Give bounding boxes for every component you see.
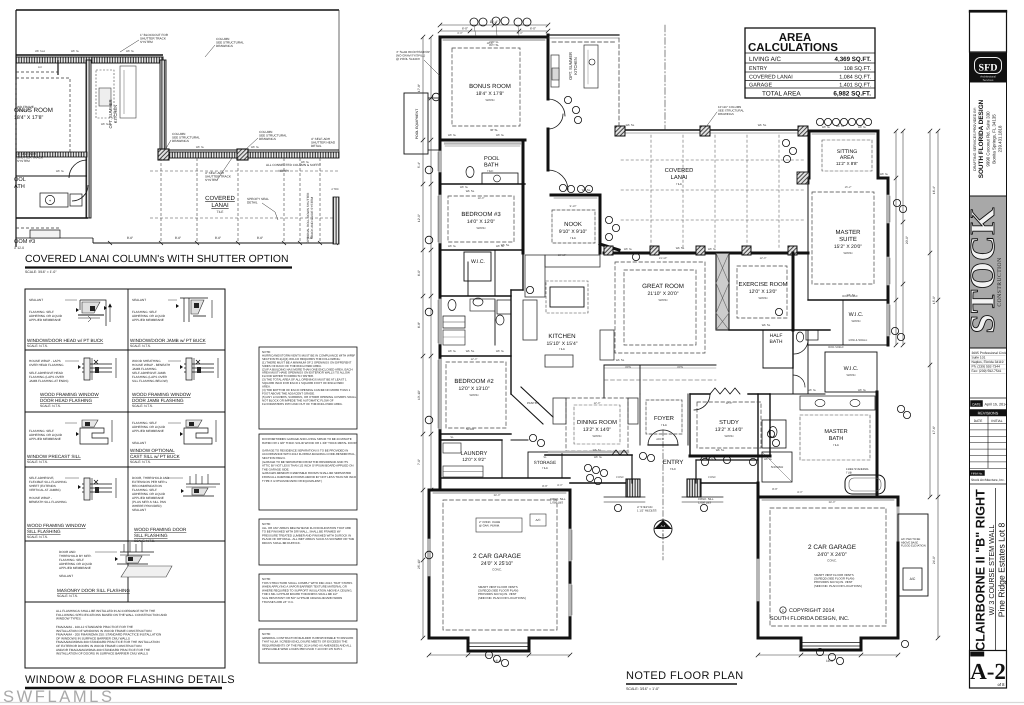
- svg-text:STUDY: STUDY: [719, 419, 739, 426]
- svg-text:APPLIED MEMBRANE: APPLIED MEMBRANE: [29, 318, 61, 322]
- plan: lanai bottom columns: [604, 246, 613, 255]
- plan: master bath counters: [800, 396, 875, 410]
- plan: lanai top beam: [619, 129, 808, 131]
- plan: dining buffet rects: [553, 398, 566, 424]
- svg-text:WOOD FRAMING WINDOW: WOOD FRAMING WINDOW: [40, 392, 99, 397]
- svg-text:15'-0": 15'-0": [932, 296, 936, 304]
- svg-text:KITCHEN: KITCHEN: [573, 57, 578, 75]
- svg-text:SILL FLASHING: SILL FLASHING: [134, 533, 168, 538]
- svg-text:APPLIED MEMBRANE: APPLIED MEMBRANE: [59, 566, 91, 570]
- svg-text:DATE: DATE: [974, 419, 983, 423]
- svg-text:WF SL: WF SL: [593, 448, 602, 452]
- plan: top exterior wall (bonus room): [440, 36, 548, 39]
- svg-text:ROD-SHELF: ROD-SHELF: [828, 346, 844, 349]
- svg-text:18'-4": 18'-4": [490, 20, 499, 24]
- svg-text:A/C: A/C: [910, 577, 916, 581]
- flashing grid row lines: [25, 349, 225, 351]
- svg-text:MASTER: MASTER: [824, 429, 847, 435]
- svg-text:SEALANT: SEALANT: [29, 298, 43, 302]
- plan: bed2 block right wall: [510, 290, 512, 394]
- svg-text:WOOD: WOOD: [485, 98, 494, 102]
- svg-text:BENEATH SILL FLASHING: BENEATH SILL FLASHING: [29, 500, 67, 504]
- svg-text:21'10" X 20'0": 21'10" X 20'0": [647, 291, 678, 297]
- svg-text:WINDOW/DOOR HEAD w/ PT BUCK: WINDOW/DOOR HEAD w/ PT BUCK: [27, 338, 104, 343]
- svg-text:CALCULATIONS: CALCULATIONS: [748, 42, 838, 54]
- plan: sitting corner step: [878, 177, 888, 180]
- svg-text:WF SL: WF SL: [858, 126, 867, 129]
- flashing grid divider vertical: [127, 289, 129, 602]
- svg-text:SCALE: 3/16" = 1'-0": SCALE: 3/16" = 1'-0": [626, 687, 660, 691]
- svg-text:NOTED FLOOR PLAN: NOTED FLOOR PLAN: [626, 670, 744, 682]
- plan: bonus right wall lower: [547, 129, 550, 152]
- svg-text:8'-0": 8'-0": [215, 236, 221, 240]
- svg-text:239.431.1818: 239.431.1818: [998, 125, 1003, 152]
- svg-text:WINDOW & DOOR FLASHING DETAILS: WINDOW & DOOR FLASHING DETAILS: [25, 674, 235, 686]
- plan: lanai centerline dashdot: [664, 25, 666, 130]
- plan: wing right wall (x523): [522, 140, 525, 253]
- plan: entry side walls: [631, 455, 633, 483]
- svg-text:17'-6": 17'-6": [932, 426, 936, 434]
- svg-text:W.I.C.: W.I.C.: [844, 366, 859, 372]
- titleblock: revisions bar: [970, 410, 1007, 417]
- svg-text:ENTRY: ENTRY: [663, 459, 684, 466]
- svg-text:8'-0": 8'-0": [257, 236, 263, 240]
- svg-text:18'4" X 17'8": 18'4" X 17'8": [14, 115, 43, 121]
- svg-text:JAMB FLASHING AT ENDS): JAMB FLASHING AT ENDS): [29, 379, 68, 383]
- note box 2: garage door note: [259, 434, 357, 510]
- svg-text:14'-0": 14'-0": [478, 197, 485, 200]
- svg-text:6,982 SQ.FT.: 6,982 SQ.FT.: [833, 91, 871, 98]
- svg-text:12'0" X 9'2": 12'0" X 9'2": [462, 457, 486, 462]
- area calc row lines: [745, 52, 875, 54]
- svg-text:Pine Ridge Estates Lot 8: Pine Ridge Estates Lot 8: [997, 522, 1007, 617]
- detail: bonus room dashed ceiling: [16, 78, 70, 154]
- plan: hall to master: [792, 368, 794, 394]
- svg-text:GREAT ROOM: GREAT ROOM: [642, 283, 684, 290]
- svg-text:MASONRY DOOR SILL FLASHING: MASONRY DOOR SILL FLASHING: [57, 588, 130, 593]
- svg-text:3695 Professional Circle: 3695 Professional Circle: [972, 351, 1008, 355]
- detail: lanai column mid: [237, 149, 248, 160]
- svg-text:SCALE: 3/16" = 1'-0": SCALE: 3/16" = 1'-0": [25, 270, 57, 274]
- plan: dining dashed rects: [566, 398, 628, 451]
- svg-text:TILE: TILE: [217, 210, 224, 214]
- plan: bonus right wall upper: [547, 35, 550, 99]
- svg-text:8'-0": 8'-0": [175, 236, 181, 240]
- svg-text:OPN: OPN: [677, 366, 683, 369]
- svg-text:6'-8": 6'-8": [417, 322, 421, 328]
- plan: entry steps: [604, 496, 645, 498]
- plan: zigzag front windows: [612, 450, 628, 455]
- svg-text:WD GYP: WD GYP: [17, 109, 30, 113]
- svg-text:WF SL: WF SL: [706, 458, 715, 461]
- svg-text:BATH: BATH: [770, 339, 783, 345]
- svg-text:CAST SILL w/ PT BUCK: CAST SILL w/ PT BUCK: [130, 454, 181, 459]
- svg-text:8'-0": 8'-0": [127, 236, 133, 240]
- svg-text:4,369 SQ.FT.: 4,369 SQ.FT.: [835, 56, 872, 63]
- svg-text:WF SL: WF SL: [624, 248, 633, 251]
- plan: study door arc: [694, 394, 710, 410]
- svg-text:9'10" X 9'10": 9'10" X 9'10": [559, 229, 587, 235]
- svg-text:SCALE: N.T.S.: SCALE: N.T.S.: [40, 404, 61, 408]
- svg-text:Fax: (239) 592-7541: Fax: (239) 592-7541: [972, 369, 1002, 373]
- svg-text:WF SL: WF SL: [496, 134, 505, 137]
- detail: second top wall segment: [92, 57, 163, 63]
- svg-text:1: 1: [662, 533, 664, 537]
- svg-text:WF SL: WF SL: [448, 245, 457, 248]
- flashing details outer box: [25, 289, 225, 668]
- svg-text:24'0" X 24'0": 24'0" X 24'0": [817, 552, 846, 558]
- plan: master left boundary: [807, 178, 809, 300]
- svg-text:SOUTH FLORIDA DESIGN: SOUTH FLORIDA DESIGN: [978, 99, 985, 178]
- svg-text:COPYRIGHT 2014: COPYRIGHT 2014: [789, 608, 834, 614]
- svg-text:April 15, 2014: April 15, 2014: [985, 403, 1008, 407]
- plan: tub: [845, 475, 885, 494]
- svg-text:DRAWINGS: DRAWINGS: [259, 137, 276, 141]
- svg-text:SEALANT: SEALANT: [132, 508, 146, 512]
- svg-text:SYSTEM: SYSTEM: [205, 178, 218, 182]
- svg-text:ATH: ATH: [14, 184, 25, 190]
- titleblock: date row: [970, 397, 1007, 399]
- svg-text:ALL CONNECTED COLUMN & SOFFIT: ALL CONNECTED COLUMN & SOFFIT: [266, 163, 321, 167]
- dim: top tag circles: [470, 18, 478, 26]
- dim: left vertical dim lines: [422, 37, 424, 638]
- svg-text:DRAWINGS: DRAWINGS: [216, 44, 233, 48]
- svg-text:APPLIED MEMBRANE: APPLIED MEMBRANE: [29, 437, 61, 441]
- plan: dining front wall: [545, 454, 632, 456]
- plan: bedroom3 dashed ceiling: [448, 196, 514, 242]
- svg-text:12'-0": 12'-0": [726, 402, 733, 405]
- svg-text:MASTER: MASTER: [835, 229, 861, 236]
- tags: nook: [559, 184, 566, 191]
- bottom photo edge line: [0, 702, 1024, 704]
- svg-text:SFD: SFD: [979, 63, 998, 74]
- detail: pool bath fixtures: [40, 193, 68, 207]
- svg-text:SCALE: N.T.S.: SCALE: N.T.S.: [57, 594, 78, 598]
- svg-text:ARCH: ARCH: [656, 438, 664, 441]
- svg-text:SCALE: N.T.S.: SCALE: N.T.S.: [134, 539, 155, 543]
- detail: lanai beam wall hatched: [163, 152, 339, 158]
- svg-text:COVERED: COVERED: [665, 167, 694, 174]
- svg-text:DRAWINGS: DRAWINGS: [172, 139, 189, 143]
- svg-text:RATED OR 1 3/8" THICK SOLID WO: RATED OR 1 3/8" THICK SOLID WOOD OR 1 3/…: [262, 441, 357, 445]
- detail: summer kitchen counters dashed: [96, 70, 114, 118]
- note box 3: flood elevation note: [259, 519, 357, 565]
- detail: right vertical band: [333, 197, 339, 244]
- plan: wic2 box: [825, 352, 877, 392]
- svg-text:WOOD: WOOD: [476, 226, 485, 230]
- plan: wic walls: [464, 252, 491, 281]
- svg-text:WF SL: WF SL: [460, 186, 469, 189]
- tags: master right: [893, 199, 900, 206]
- svg-text:INSTALLATION OF DOORS IN SURFA: INSTALLATION OF DOORS IN SURFACE BARRIER…: [56, 652, 148, 656]
- plan: right garage window bands: [757, 560, 760, 600]
- plan: master hall door arcs: [794, 340, 808, 354]
- detail: bottom left step outline: [92, 238, 94, 243]
- plan: summer kitchen counters: [551, 55, 559, 87]
- svg-text:SCALE: N.T.S.: SCALE: N.T.S.: [130, 344, 151, 348]
- svg-text:FOYER: FOYER: [654, 415, 674, 422]
- svg-text:KITCHEN: KITCHEN: [548, 333, 575, 340]
- plan: bonus room dashed ceiling: [452, 48, 520, 126]
- svg-text:SEALANT: SEALANT: [59, 574, 73, 578]
- detail: door swing arcs: [69, 160, 87, 178]
- plan: pantry diagonal hall: [511, 394, 543, 424]
- svg-text:8'-0": 8'-0": [542, 484, 548, 488]
- plan: summer kitchen top wall: [548, 34, 619, 36]
- titleblock: drafting services rotated text: [970, 81, 1007, 83]
- svg-text:20'-0": 20'-0": [905, 236, 909, 244]
- svg-text:12'0" X 13'10": 12'0" X 13'10": [458, 386, 489, 392]
- svg-text:WF SL: WF SL: [496, 350, 505, 353]
- svg-text:SYSTEM: SYSTEM: [140, 40, 153, 44]
- svg-text:WF SL: WF SL: [822, 126, 831, 129]
- svg-text:CONC: CONC: [708, 476, 716, 479]
- svg-text:WF SL: WF SL: [71, 50, 80, 53]
- detail: pool bath upper wall: [16, 152, 87, 157]
- svg-text:1,084 SQ.FT.: 1,084 SQ.FT.: [839, 75, 871, 81]
- svg-text:24'0" X 25'10": 24'0" X 25'10": [481, 561, 513, 567]
- svg-text:SCALE: N.T.S.: SCALE: N.T.S.: [27, 535, 48, 539]
- svg-text:TILE: TILE: [661, 423, 667, 427]
- plan: laundry counters: [443, 466, 483, 477]
- plan: sitting hatched corner: [797, 172, 809, 184]
- svg-text:REVISIONS: REVISIONS: [978, 412, 999, 416]
- svg-text:OVER HEAD FLASHING: OVER HEAD FLASHING: [29, 363, 64, 367]
- plan: lanai dashed border: [618, 38, 620, 128]
- svg-text:WF SL: WF SL: [582, 188, 591, 192]
- plan: copyright: [780, 607, 786, 613]
- svg-text:ROD & SHELF: ROD & SHELF: [849, 338, 868, 342]
- svg-text:WF SL: WF SL: [762, 323, 771, 327]
- svg-text:12'-0": 12'-0": [471, 358, 478, 361]
- plan: great room south boundary: [604, 364, 716, 366]
- svg-text:WF SL: WF SL: [758, 123, 767, 127]
- plan: right garage walls: [758, 496, 898, 499]
- svg-text:FLOODWATERS INTO AND OUT OF TH: FLOODWATERS INTO AND OUT OF THE ENCLOSED…: [262, 402, 343, 406]
- svg-text:WINDOW OPTIONAL: WINDOW OPTIONAL: [130, 448, 175, 453]
- svg-text:CLAIRBORNE II "B" RIGHT: CLAIRBORNE II "B" RIGHT: [974, 489, 988, 651]
- detail: pool bath lower wall: [16, 175, 87, 177]
- svg-text:6'-0": 6'-0": [462, 27, 468, 31]
- dim: bottom dim lines: [429, 654, 570, 656]
- area calculations table box: [745, 28, 875, 98]
- svg-text:WF SL: WF SL: [808, 389, 817, 392]
- plan: master bottom wall: [808, 299, 888, 301]
- svg-text:BONUS ROOM: BONUS ROOM: [469, 83, 511, 90]
- plan: left garage window bands: [569, 530, 572, 560]
- svg-text:VERTICAL AT JAMBS): VERTICAL AT JAMBS): [29, 488, 61, 492]
- svg-text:WINDOW TYPES:: WINDOW TYPES:: [56, 617, 82, 621]
- plan: half bath: [762, 330, 764, 368]
- svg-text:INITIAL: INITIAL: [991, 419, 1002, 423]
- plan: hall dashes: [511, 439, 528, 441]
- plan: entry column left: [626, 479, 640, 497]
- svg-text:LANAI: LANAI: [671, 175, 688, 181]
- plan: bonus door arcs: [548, 99, 565, 116]
- svg-text:(SEE FND. PLAN FOR LOCATIONS): (SEE FND. PLAN FOR LOCATIONS): [478, 596, 526, 600]
- plan: lanai bottom wall: [604, 252, 808, 255]
- svg-text:TILE: TILE: [570, 236, 576, 240]
- svg-text:NOOK: NOOK: [564, 221, 582, 228]
- svg-text:WOOD FRAMING WINDOW: WOOD FRAMING WINDOW: [132, 392, 191, 397]
- svg-text:ENTRY: ENTRY: [749, 66, 768, 72]
- svg-text:SILL FLASHING BELOW): SILL FLASHING BELOW): [132, 379, 168, 383]
- svg-text:SOUTH FLORIDA DESIGN, INC.: SOUTH FLORIDA DESIGN, INC.: [770, 616, 849, 622]
- plan: bedroom2 dashed ceiling + label: [446, 362, 506, 428]
- svg-text:SCALE: N.T.S.: SCALE: N.T.S.: [130, 460, 151, 464]
- svg-text:DETAIL: DETAIL: [247, 201, 258, 205]
- svg-text:WF SL: WF SL: [716, 448, 725, 452]
- svg-text:WF SL: WF SL: [251, 146, 260, 149]
- svg-text:8-0: 8-0: [38, 66, 42, 69]
- plan: bath2 walls: [440, 344, 511, 346]
- plan: kitchen island: [550, 287, 584, 307]
- svg-text:8'-0": 8'-0": [797, 491, 802, 494]
- plan: left garage door tracks: [468, 642, 529, 644]
- svg-text:WF SL: WF SL: [858, 389, 867, 392]
- plan: study zigzag window: [710, 388, 740, 394]
- detail: lanai bay dashed verticals: [160, 158, 162, 243]
- svg-text:14'0" X 12'0": 14'0" X 12'0": [467, 219, 495, 225]
- svg-text:POOL EQUIPMENT: POOL EQUIPMENT: [415, 109, 419, 139]
- svg-text:Services: Services: [983, 78, 994, 82]
- svg-text:WF SL: WF SL: [676, 246, 685, 250]
- svg-text:TOTAL AREA: TOTAL AREA: [762, 91, 801, 98]
- plan: lanai paver grid dashed: [650, 135, 652, 250]
- plan: nook walls: [547, 152, 550, 170]
- svg-text:C: C: [782, 609, 785, 613]
- svg-text:DETAIL: DETAIL: [311, 144, 322, 148]
- titleblock: top box: [970, 12, 1007, 52]
- svg-text:SUITE: SUITE: [839, 236, 857, 243]
- plan: kitchen lower counters: [523, 300, 537, 340]
- svg-text:TYPE X GYPSUM BOARD OR EQUIVA: TYPE X GYPSUM BOARD OR EQUIVALENT.): [262, 479, 322, 483]
- note box 5: general contractor note: [259, 629, 357, 663]
- svg-text:WOOD: WOOD: [851, 319, 860, 323]
- svg-text:2 CAR GARAGE: 2 CAR GARAGE: [473, 553, 521, 560]
- svg-text:6'-0": 6'-0": [417, 270, 421, 276]
- titleblock: project name vertical: [974, 489, 988, 651]
- svg-text:21'-10": 21'-10": [659, 257, 667, 260]
- plan: garage note box: [476, 518, 522, 532]
- plan: kitchen counters: [525, 255, 545, 297]
- plan: wic1: [808, 344, 888, 346]
- svg-text:KITCHEN: KITCHEN: [113, 105, 118, 123]
- plan: bath vanities extra: [470, 299, 495, 311]
- tags: bonus door: [564, 96, 571, 103]
- plan: laundry walls: [440, 439, 502, 441]
- sheet border top: [16, 9, 339, 11]
- svg-text:CONC.: CONC.: [492, 568, 502, 572]
- plan: sitting area top wall: [809, 130, 878, 133]
- svg-text:WOOD: WOOD: [658, 298, 667, 302]
- svg-text:WF SL: WF SL: [616, 358, 625, 362]
- svg-text:DINING ROOM: DINING ROOM: [577, 419, 617, 426]
- plan: front wall right of entry: [701, 482, 758, 484]
- svg-text:W.I.C.: W.I.C.: [471, 259, 485, 265]
- svg-text:6'-0": 6'-0": [517, 32, 522, 35]
- detail: lanai column left: [158, 149, 169, 160]
- plan: bath3 walls: [440, 295, 511, 297]
- dim: far right dim lines: [929, 131, 931, 497]
- svg-text:SHOWER: SHOWER: [771, 465, 784, 469]
- svg-text:EXERCISE ROOM: EXERCISE ROOM: [739, 281, 788, 288]
- svg-text:SCALE: N.T.S.: SCALE: N.T.S.: [132, 404, 153, 408]
- note box 4: FBC 2014 note: [259, 574, 357, 621]
- svg-text:13'2" X 14'0": 13'2" X 14'0": [715, 427, 743, 433]
- plan: master right wall: [887, 178, 890, 345]
- svg-text:Suite 101: Suite 101: [972, 356, 986, 360]
- plan: garage ceiling dashed: [443, 500, 557, 630]
- svg-text:OOL: OOL: [14, 177, 26, 183]
- svg-text:APPLICABLE WIND LOADS PER ASCE: APPLICABLE WIND LOADS PER ASCE 7-10 FOR …: [262, 647, 343, 651]
- svg-text:WOOD: WOOD: [758, 296, 767, 300]
- svg-text:(SEE FND. PLAN FOR LOCATIONS): (SEE FND. PLAN FOR LOCATIONS): [814, 584, 862, 588]
- plan: pool bath bottom wall: [440, 183, 525, 185]
- svg-text:WF SL: WF SL: [101, 123, 110, 126]
- svg-text:WF SL: WF SL: [196, 146, 205, 149]
- plan: foyer: [646, 400, 682, 434]
- plan: entry double door arcs: [648, 430, 663, 445]
- note box 1: hurricane opening protection: [259, 347, 357, 429]
- svg-text:WF SL: WF SL: [764, 458, 773, 461]
- detail: lanai dashed horizontals: [150, 170, 339, 172]
- svg-text:SL: SL: [450, 436, 454, 439]
- svg-text:DOOR JAMB FLASHING: DOOR JAMB FLASHING: [132, 398, 184, 403]
- detail: left vertical wall x88: [86, 60, 91, 218]
- tags: misc interior: [529, 434, 536, 441]
- svg-text:FIRM No.: FIRM No.: [971, 472, 983, 476]
- svg-text:108 SQ.FT.: 108 SQ.FT.: [844, 66, 871, 72]
- svg-text:4 TRK: 4 TRK: [331, 188, 339, 191]
- svg-text:APPLIED MEMBRANE: APPLIED MEMBRANE: [132, 318, 164, 322]
- svg-text:WOOD: WOOD: [469, 393, 478, 397]
- plan: lanai top columns: [615, 126, 625, 136]
- svg-text:18'4" X 17'8": 18'4" X 17'8": [476, 91, 504, 97]
- svg-text:6'-0": 6'-0": [457, 32, 462, 35]
- svg-text:TILE: TILE: [670, 467, 676, 471]
- tags: entry cluster: [584, 464, 591, 471]
- svg-text:SILL FLASHING: SILL FLASHING: [27, 529, 61, 534]
- plan: bath fixtures: [448, 300, 456, 311]
- svg-text:TUB: TUB: [846, 470, 852, 474]
- svg-text:11'2" X 8'8": 11'2" X 8'8": [836, 161, 858, 166]
- svg-text:TRACK AND GUIDE SYSTEM: TRACK AND GUIDE SYSTEM: [310, 197, 314, 239]
- plan: exercise room: [729, 252, 793, 254]
- svg-text:TRUSSES ARE 24" O.C.: TRUSSES ARE 24" O.C.: [262, 600, 294, 604]
- svg-text:24'-0": 24'-0": [494, 494, 501, 497]
- svg-text:9'-10": 9'-10": [570, 205, 577, 208]
- svg-text:CONC.: CONC.: [827, 559, 837, 563]
- detail: right vertical wall x163: [160, 60, 166, 152]
- svg-text:WF SL: WF SL: [594, 456, 603, 459]
- svg-text:@ GAR. PERIM.: @ GAR. PERIM.: [479, 523, 500, 527]
- svg-text:8'-0": 8'-0": [772, 487, 778, 491]
- svg-text:BEDROOM #3: BEDROOM #3: [461, 211, 501, 218]
- svg-text:+: +: [49, 198, 52, 203]
- svg-text:90' SL: 90' SL: [490, 128, 498, 132]
- svg-text:17'-8": 17'-8": [417, 84, 421, 92]
- svg-text:WF SL: WF SL: [708, 248, 717, 251]
- svg-text:1 1/2" RECESS: 1 1/2" RECESS: [637, 508, 657, 512]
- svg-text:12'-0": 12'-0": [417, 214, 421, 222]
- plan: master bath top region walls: [758, 393, 825, 395]
- svg-text:1,401 SQ.FT.: 1,401 SQ.FT.: [839, 83, 871, 89]
- detail: left bottom corner walls: [16, 237, 93, 239]
- plan: left exterior wall: [439, 37, 442, 490]
- svg-text:2 CAR GARAGE: 2 CAR GARAGE: [808, 544, 856, 551]
- detail: top wall upper face: [16, 54, 163, 56]
